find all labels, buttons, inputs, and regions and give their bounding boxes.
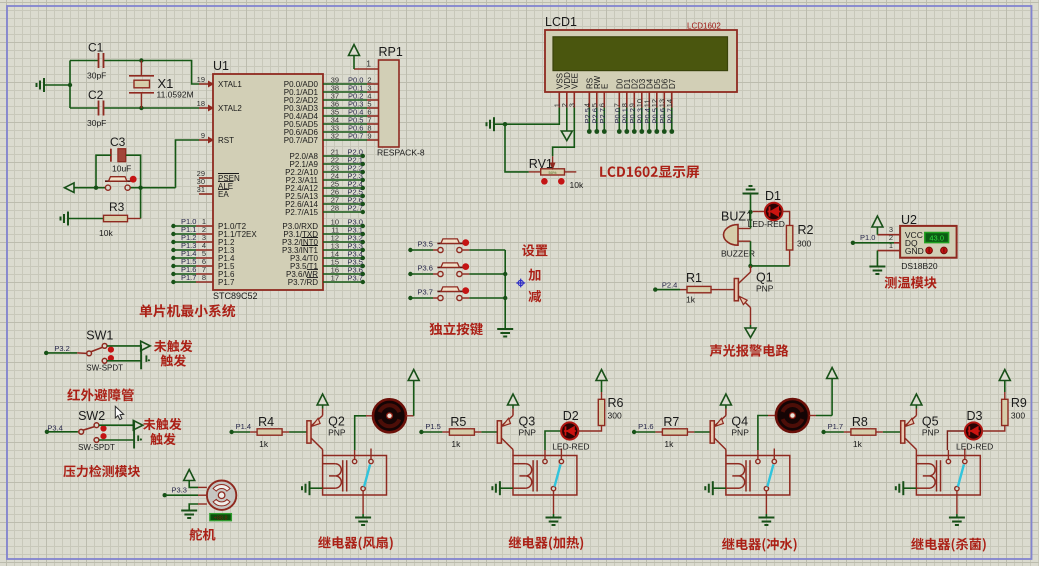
svg-text:R1: R1 (686, 271, 702, 285)
svg-text:SW1: SW1 (86, 329, 113, 343)
transistor Q2 PNP (307, 405, 346, 456)
potentiometer RV1 (10k) (529, 156, 584, 190)
transistor Q3 PNP (497, 405, 536, 456)
power arrow right (SW1 untriggered) (141, 341, 151, 351)
svg-text:P0.7: P0.7 (665, 108, 674, 123)
svg-text:RST: RST (218, 136, 234, 145)
svg-text:P1.6: P1.6 (638, 422, 653, 431)
wire buzzer pins to rails (750, 212, 752, 266)
svg-text:STC89C52: STC89C52 (213, 291, 258, 301)
buzzer BUZ1 (721, 210, 755, 259)
wire XTAL2 net (C2 to chip pin 18) (104, 106, 200, 110)
power arrow (M1) (408, 370, 419, 381)
svg-text:E: E (600, 84, 609, 89)
label 红外避障管 (67, 388, 134, 401)
svg-text:R5: R5 (450, 415, 466, 429)
ground (RL2 common) (546, 518, 562, 526)
svg-text:LED-RED: LED-RED (956, 442, 993, 452)
wire C1 left to left rail (44, 61, 99, 109)
label 声光报警电路 (710, 344, 789, 357)
power arrow down (Q1) (745, 328, 756, 338)
wire D3 anode to relay contact (947, 431, 965, 450)
svg-text:3: 3 (568, 103, 577, 107)
svg-text:C2: C2 (88, 88, 104, 102)
svg-text:300: 300 (608, 411, 622, 421)
label 单片机最小系统 (140, 304, 236, 317)
origin marker (blue crosshair) (516, 279, 525, 288)
wire R9 to power (1004, 381, 1006, 400)
power arrow (U2 VCC) (872, 216, 883, 227)
svg-text:GND: GND (905, 246, 924, 256)
motor M1 (fan) (373, 399, 406, 432)
svg-text:30pF: 30pF (87, 118, 106, 128)
crystal X1 (129, 61, 194, 109)
capacitor C3 (10uF) (110, 135, 131, 174)
wire SW2 NC to battery (99, 439, 134, 441)
power arrow (M2) (827, 368, 838, 379)
transistor Q5 PNP (901, 405, 940, 456)
wire ground rail to RV1 left (505, 124, 541, 172)
svg-text:+88.8: +88.8 (214, 515, 228, 521)
svg-text:P1.7: P1.7 (828, 422, 843, 431)
svg-text:Q1: Q1 (756, 271, 773, 285)
svg-text:R7: R7 (663, 415, 679, 429)
label 压力检测模块 (63, 465, 140, 477)
svg-text:VEE: VEE (570, 73, 579, 89)
ground (R3) (61, 212, 69, 226)
svg-text:LED-RED: LED-RED (748, 219, 785, 229)
svg-text:D2: D2 (563, 409, 579, 423)
label 加 (528, 269, 540, 281)
svg-text:PNP: PNP (922, 428, 940, 438)
ground (RL4 coil) (896, 481, 917, 495)
svg-text:P1.5: P1.5 (425, 422, 440, 431)
capacitor C1 (87, 41, 106, 81)
svg-text:R2: R2 (798, 223, 814, 237)
svg-text:1k: 1k (451, 439, 461, 449)
svg-text:28: 28 (331, 204, 339, 213)
transistor Q4 PNP (710, 405, 749, 456)
ground (RL3 coil) (705, 481, 726, 495)
svg-text:300: 300 (797, 239, 811, 249)
svg-text:LCD1602: LCD1602 (687, 22, 721, 31)
power arrow (servo) (184, 470, 195, 481)
svg-text:P3.3: P3.3 (172, 486, 187, 495)
ground (keys) (497, 329, 513, 337)
label 继电器(加热) (509, 536, 584, 550)
svg-text:LED-RED: LED-RED (552, 442, 589, 452)
wire motor M1 to relay contact (355, 416, 373, 450)
label LCD1602显示屏 (600, 166, 699, 178)
svg-text:6: 6 (598, 103, 607, 107)
svg-text:P2.4: P2.4 (662, 281, 677, 290)
power arrow (Q5 emitter) (911, 394, 922, 405)
svg-text:P0.7/AD7: P0.7/AD7 (284, 136, 319, 145)
U1 port P3 pins 10-17 with net labels (282, 218, 365, 288)
svg-text:9: 9 (201, 131, 205, 140)
svg-text:10uF: 10uF (112, 164, 131, 174)
svg-text:P2.7/A15: P2.7/A15 (285, 208, 318, 217)
svg-text:Q5: Q5 (922, 415, 939, 429)
ground (LCD VSS) (487, 117, 495, 131)
svg-text:D3: D3 (967, 409, 983, 423)
svg-text:D1: D1 (765, 189, 781, 203)
svg-text:D7: D7 (668, 78, 677, 89)
svg-text:Q3: Q3 (519, 415, 536, 429)
svg-text:10k: 10k (99, 228, 113, 238)
wire VDD to power-down arrow (566, 108, 568, 132)
svg-text:P3.6: P3.6 (418, 264, 433, 273)
push buttons P3.5/P3.6/P3.7 (independent keys) (408, 239, 505, 301)
svg-text:14: 14 (665, 99, 674, 107)
temperature module U2 DS18B20 (900, 213, 957, 271)
svg-text:R8: R8 (852, 415, 868, 429)
LED D1 LED-RED (748, 189, 785, 229)
svg-text:Q2: Q2 (328, 415, 345, 429)
node buzzer top junction (748, 210, 752, 214)
label 减 (528, 290, 541, 302)
RP1 pin 1 to power (354, 56, 379, 70)
LCD1 LCD1602 body (545, 15, 737, 92)
wire D3 cathode to R9 (982, 426, 1005, 432)
svg-text:RESPACK-8: RESPACK-8 (377, 148, 425, 158)
label 继电器(冲水) (722, 538, 797, 552)
power arrow (Q2 emitter) (317, 394, 328, 405)
svg-text:1k: 1k (259, 439, 269, 449)
label 测温模块 (885, 276, 937, 288)
resistor R2 (300) (786, 223, 813, 250)
wire R2 bottom to collector junction (748, 250, 789, 268)
wire P1.7 through R8 to Q5 base (821, 415, 900, 449)
svg-text:18: 18 (197, 99, 205, 108)
svg-text:9: 9 (367, 132, 371, 141)
power arrow (reset, pointing left) (65, 183, 75, 193)
resistor R3 (10k) (68, 200, 141, 238)
wire P1.6 through R7 to Q4 base (632, 415, 710, 449)
label SW2 触发 (150, 433, 175, 445)
mouse cursor (115, 406, 123, 419)
svg-text:R9: R9 (1011, 396, 1027, 410)
svg-text:LCD1: LCD1 (545, 15, 577, 29)
svg-text:P3.5: P3.5 (418, 240, 433, 249)
ground (above D1) (743, 186, 759, 212)
power arrow down (LCD VDD) (561, 131, 572, 141)
label 舵机 (189, 528, 215, 541)
svg-text:P1.0: P1.0 (860, 233, 875, 242)
wire U2 GND to ground (876, 251, 878, 267)
svg-text:R6: R6 (608, 396, 624, 410)
MCU U1 STC89C52 body (213, 59, 323, 301)
relay RL1 (fan) (323, 449, 387, 518)
wire D2 cathode to R6 (578, 426, 602, 432)
wire XTAL1 net (C1 to chip pin 19) (104, 58, 200, 84)
LCD data/control net stubs with labels (583, 108, 675, 134)
wire D2 anode to relay contact (545, 431, 562, 450)
ground (RL4 common) (949, 518, 965, 526)
power arrow (Q4 emitter) (720, 394, 731, 405)
battery symbol (SW2 triggered) (134, 422, 142, 449)
wire C3 right / RST node (126, 140, 199, 219)
servo motor (舵机) (207, 481, 236, 522)
ground (RL1 common) (355, 518, 371, 526)
switch SW1 SW-SPDT (44, 329, 123, 373)
svg-text:32: 32 (331, 132, 339, 141)
svg-text:P2.7: P2.7 (598, 108, 607, 123)
wire SW2 NO to arrow (99, 424, 133, 426)
transistor Q1 PNP (emitter down) (734, 266, 774, 308)
wire C3/button left node (74, 155, 111, 190)
svg-text:BUZ1: BUZ1 (721, 210, 753, 224)
label SW1 触发 (161, 354, 186, 366)
power arrow (RP1) (349, 45, 360, 56)
power arrow right (SW2 untriggered) (133, 420, 143, 430)
wire D1 cathode to R2 (783, 212, 790, 226)
svg-text:300: 300 (1011, 411, 1025, 421)
label 继电器(风扇) (318, 536, 393, 550)
wire D1 anode (753, 211, 765, 213)
svg-text:8: 8 (202, 273, 206, 282)
wire P1.5 through R5 to Q3 base (419, 415, 497, 449)
svg-text:PNP: PNP (756, 284, 774, 294)
wire SW1 NC to battery (107, 360, 141, 362)
LCD1 pin names and pin numbers (553, 72, 677, 108)
svg-text:P3.7/RD: P3.7/RD (288, 278, 318, 287)
battery symbol (SW1 triggered) (141, 345, 150, 370)
wire P3.3 to servo signal (163, 486, 207, 498)
svg-text:P3.2: P3.2 (54, 344, 69, 353)
svg-text:1k: 1k (686, 295, 696, 305)
wire motor M2 to power (809, 379, 832, 416)
relay RL2 (heater) (513, 449, 577, 518)
ground (crystal rail) (37, 78, 45, 92)
svg-text:SW-SPDT: SW-SPDT (78, 443, 115, 452)
svg-text:U2: U2 (901, 213, 917, 227)
U1 pins XTAL1/XTAL2/RST (19,18,9) (197, 75, 243, 145)
svg-text:P3.7: P3.7 (348, 274, 363, 283)
wire P1.0 to U2 DQ (851, 233, 894, 245)
label 继电器(杀菌) (911, 538, 986, 552)
svg-text:1: 1 (366, 59, 371, 69)
wire R6 to power (601, 381, 603, 400)
wire P1.4 through R4 to Q2 base (229, 415, 306, 449)
svg-text:10k: 10k (570, 180, 584, 190)
wire Q1 emitter to down arrow (750, 308, 752, 329)
svg-text:R3: R3 (109, 200, 125, 214)
ground (RL2 coil) (492, 481, 513, 495)
svg-text:XTAL1: XTAL1 (218, 80, 242, 89)
U1 port P2 pins 21-28 with net labels (285, 148, 365, 218)
svg-text:30pF: 30pF (87, 71, 106, 81)
wire motor M1 to power (406, 381, 414, 416)
ground (U2) (869, 267, 885, 275)
power arrow (Q3 emitter) (508, 394, 519, 405)
svg-text:EA: EA (218, 190, 229, 199)
svg-text:C3: C3 (110, 135, 126, 149)
svg-text:XTAL2: XTAL2 (218, 104, 242, 113)
svg-text:P1.4: P1.4 (236, 422, 251, 431)
wire U2 VCC to power (876, 227, 878, 235)
svg-text:17: 17 (331, 274, 339, 283)
svg-text:19: 19 (197, 75, 205, 84)
LED D3 LED-RED (956, 409, 993, 452)
relay RL4 (sterilize) (916, 449, 980, 518)
svg-text:31: 31 (197, 185, 205, 194)
wire VEE to RV1 wiper (553, 108, 575, 157)
relay RL3 (flush) (726, 449, 790, 518)
label 设置 (522, 244, 547, 256)
ground (RL3 common) (758, 518, 774, 526)
svg-text:RP1: RP1 (379, 45, 403, 59)
svg-text:P0.7: P0.7 (348, 132, 363, 141)
resistor R6 (300) (598, 396, 623, 426)
U1 port P0 pins 39-32 wired to RP1 (284, 76, 379, 146)
svg-text:C1: C1 (88, 41, 104, 55)
motor M2 (pump) (776, 399, 809, 432)
push button (reset) (105, 176, 137, 190)
svg-text:R4: R4 (258, 415, 274, 429)
label SW2 未触发 (143, 418, 181, 430)
svg-text:PNP: PNP (731, 428, 749, 438)
resistor R1 (1k) (653, 271, 734, 305)
svg-text:SW2: SW2 (78, 409, 105, 423)
power arrow (R9) (999, 370, 1010, 381)
svg-text:PNP: PNP (519, 428, 537, 438)
wire servo VCC (189, 481, 207, 488)
wire motor M2 to relay contact (758, 416, 776, 451)
svg-text:PNP: PNP (328, 428, 346, 438)
capacitor C2 (87, 88, 106, 128)
svg-text:1k: 1k (853, 439, 863, 449)
ground (RL1 coil) (302, 481, 323, 495)
svg-text:43.0: 43.0 (929, 234, 944, 243)
ground (servo) (181, 511, 197, 519)
resistor pack RP1 RESPACK-8 (377, 45, 425, 158)
wire VSS to ground (494, 108, 559, 127)
svg-text:RV1: RV1 (529, 157, 553, 171)
LED D2 LED-RED (552, 409, 589, 452)
svg-text:1k: 1k (664, 439, 674, 449)
svg-text:P1.7: P1.7 (181, 273, 196, 282)
wire key common to ground (503, 250, 507, 329)
wire SW1 NO to arrow (107, 345, 141, 347)
label 独立按键 (429, 322, 482, 335)
svg-text:11.0592M: 11.0592M (157, 90, 194, 100)
power arrow (R6) (596, 370, 607, 381)
U2 pin stubs and numbers (877, 225, 900, 251)
label SW1 未触发 (154, 340, 192, 352)
svg-text:P2.7: P2.7 (348, 204, 363, 213)
U1 port P1 pins 1-8 with net labels (171, 217, 257, 287)
svg-text:Q4: Q4 (731, 415, 748, 429)
svg-text:P3.7: P3.7 (418, 288, 433, 297)
svg-text:SW-SPDT: SW-SPDT (86, 364, 123, 373)
svg-text:P1.7: P1.7 (218, 278, 235, 287)
svg-text:U1: U1 (213, 59, 229, 73)
svg-text:DS18B20: DS18B20 (901, 261, 938, 271)
resistor R9 (300) (1002, 396, 1027, 426)
switch SW2 SW-SPDT (45, 409, 115, 452)
wire servo GND (189, 504, 207, 511)
U1 pins PSEN/ALE/EA (29,30,31) (197, 169, 240, 199)
